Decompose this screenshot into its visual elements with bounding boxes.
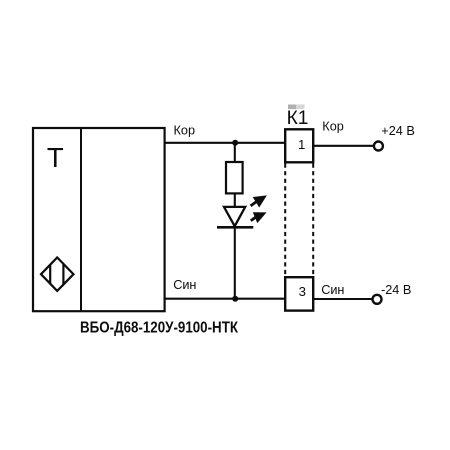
terminal circle +24V (374, 142, 383, 151)
sensor internal divider (80, 128, 82, 311)
wire: resistor to LED (234, 193, 236, 207)
LED cathode bar (217, 226, 253, 229)
wire Кор: sensor output to connector pin 1 (165, 142, 286, 144)
svg-text:Син: Син (321, 283, 344, 297)
connector K1 pin 1 box (285, 129, 313, 162)
svg-text:Кор: Кор (174, 124, 196, 138)
node: bottom junction (232, 296, 238, 302)
LED emission arrow (lower) (251, 212, 267, 223)
svg-text:К1: К1 (287, 108, 309, 129)
LED emission arrow (upper) (251, 195, 267, 207)
connector K1 pin 3 box (285, 277, 313, 310)
svg-text:Син: Син (173, 278, 196, 292)
svg-text:-24 В: -24 В (381, 283, 411, 297)
svg-text:Кор: Кор (322, 119, 344, 133)
connector K1 body (dashed left edge) (284, 164, 286, 277)
node: top junction (232, 140, 238, 146)
svg-text:ВБО-Д68-120У-9100-НТК: ВБО-Д68-120У-9100-НТК (80, 319, 239, 336)
wire: LED cathode to bottom rail (234, 227, 236, 298)
resistor (current limiting) (226, 162, 243, 193)
svg-text:3: 3 (299, 284, 306, 299)
svg-text:1: 1 (298, 137, 305, 152)
wire: resistor top lead (234, 143, 236, 163)
svg-text:+24 В: +24 В (381, 124, 415, 138)
wire: pin 1 to +24V terminal (314, 145, 374, 147)
LED indicator (anode triangle) (224, 207, 245, 226)
connector K1 body (dashed right edge) (312, 164, 314, 277)
sensor body (ВБО-Д68-120У-9100-НТК) (33, 128, 165, 311)
wire: pin 3 to -24V terminal (314, 298, 373, 300)
optical sensor symbol (diamond with chords) (41, 258, 74, 291)
terminal circle -24V (373, 295, 382, 304)
wire Син: sensor output to connector pin 3 (165, 298, 286, 300)
svg-text:T: T (47, 142, 64, 173)
